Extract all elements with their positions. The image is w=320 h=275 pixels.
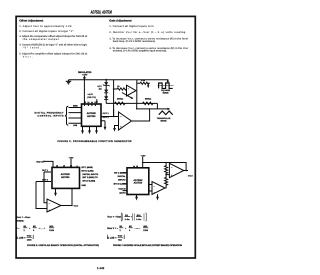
label: REGULATED +15V: [78, 71, 92, 76]
svg-text:+ . . . +: + . . . +: [39, 227, 46, 230]
wire: top rail: [69, 79, 169, 81]
svg-text:BIT 1 (MSB): BIT 1 (MSB): [82, 166, 94, 169]
svg-text:1024: 1024: [27, 239, 32, 242]
ground arrow at R2: [147, 83, 149, 86]
svg-text:2: 2: [120, 229, 122, 232]
label VREF: [36, 160, 44, 163]
svg-text:): ): [33, 236, 34, 239]
wire A4 output to resistor column: [165, 187, 166, 189]
label: TRIANGULAR WAVE: [157, 117, 171, 122]
ground arrow below OUT2: [101, 121, 105, 128]
svg-text:– ••• –: – ••• –: [135, 228, 141, 230]
svg-text:1-142: 1-142: [97, 267, 105, 270]
wire: OUT1 to A2: [101, 116, 119, 118]
svg-text:BIT 10 (LSB): BIT 10 (LSB): [82, 169, 94, 172]
svg-text:13: 13: [94, 101, 96, 104]
svg-text:Gain Adjustment: Gain Adjustment: [109, 18, 131, 22]
resistor R1 1k (comparator input): [117, 85, 120, 88]
svg-text:back loop. (0 ≤ R ≤ 500Ω resi: back loop. (0 ≤ R ≤ 500Ω resistance).: [113, 40, 156, 43]
wire: A2 inputs: [119, 109, 122, 115]
page border frame: [16, 16, 195, 258]
svg-text:1–210: 1–210: [125, 218, 130, 221]
svg-text:AD7530: AD7530: [61, 176, 70, 179]
resistor column: R5 upper: [165, 163, 168, 174]
label +15V: [69, 156, 75, 159]
U2 right side labels: [82, 166, 99, 187]
svg-text:AD7530: AD7530: [134, 182, 143, 185]
feedback wire from OUT1: [44, 172, 51, 203]
svg-text:–: –: [120, 115, 122, 118]
svg-text:VOUT: VOUT: [74, 205, 79, 208]
svg-text:VREF IN: VREF IN: [36, 160, 44, 163]
svg-text:): ): [124, 236, 125, 239]
svg-text:(±10V): (±10V): [120, 192, 126, 195]
diode D3: [104, 96, 108, 99]
zener diode D1: [105, 80, 107, 104]
pin numbers above U1: [84, 101, 97, 104]
svg-text:AD7520/: AD7520/: [61, 173, 70, 176]
svg-text:–: –: [128, 89, 130, 91]
svg-text:WAVE: WAVE: [163, 92, 170, 95]
svg-text:5. Adjust RFB amplifier offse: 5. Adjust RFB amplifier offset adjust tr…: [19, 53, 87, 56]
svg-text:VOUT = –VREF: VOUT = –VREF: [107, 216, 121, 219]
pin numbers above U3: [133, 165, 138, 168]
ground arrows below U1: [83, 126, 97, 131]
arrow into pin 15: [96, 99, 98, 102]
svg-text:+4.7V: +4.7V: [87, 93, 93, 96]
label: DIGITAL FREQUENCY CONTROL INPUTS: [35, 112, 65, 118]
square wave glyph: [159, 83, 173, 88]
wire VREF to chip: [45, 161, 54, 167]
svg-text:OUT 1: OUT 1: [103, 112, 110, 115]
op-amp A1 comparator: [127, 85, 137, 96]
ground (left end of top rail): [66, 80, 71, 84]
label VOUT: [74, 205, 79, 208]
svg-text:(A): (A): [99, 88, 102, 91]
wire A3 output: [61, 205, 72, 207]
input brace: [65, 106, 68, 125]
label: SQUARE WAVE: [161, 89, 171, 94]
triangle wave glyph: [159, 111, 173, 115]
junction node to A5 + input: [165, 174, 167, 176]
svg-text:200kΩ: 200kΩ: [117, 97, 124, 100]
wire +15V to chip: [70, 159, 72, 167]
svg-text:FIGURE 6. UNIPOLAR BINARY OPE: FIGURE 6. UNIPOLAR BINARY OPERATION (DIG…: [27, 244, 99, 247]
svg-text:14: 14: [70, 165, 72, 168]
svg-text:–: –: [49, 202, 51, 205]
supply arrow into top wire: [83, 76, 85, 80]
svg-text:+15V: +15V: [69, 156, 75, 159]
svg-text:BIT 10 (LSB)): BIT 10 (LSB)): [83, 180, 96, 183]
svg-text:VREF: VREF: [27, 235, 32, 238]
wire: drop from rail to DAC pin: [83, 80, 85, 104]
DAC U3 AD7520: [127, 168, 149, 195]
svg-text:+: +: [29, 227, 31, 230]
left column: Offset Adjustment text: [19, 18, 88, 58]
feedback from output to chip: [71, 188, 73, 205]
svg-text:AD7520, AD7530: AD7520, AD7530: [90, 9, 112, 14]
svg-text:OUT 1: OUT 1: [42, 169, 49, 172]
svg-text:15: 15: [84, 101, 86, 104]
svg-text:2. Connect all digital inputs: 2. Connect all digital inputs to logic “…: [19, 30, 74, 33]
label MSB: [73, 105, 78, 108]
svg-text:2. Monitor VOUT for a –VREF: 2. Monitor VOUT for a –VREF (1 – 2–10) v…: [109, 31, 186, 34]
svg-text:VREF IN: VREF IN: [118, 187, 126, 190]
summing rail wire: [106, 102, 157, 104]
ground arrow below A4: [157, 194, 159, 197]
svg-text:LSB: LSB: [73, 124, 78, 127]
svg-text:VREF: VREF: [118, 235, 123, 238]
potentiometer R3 200k: [117, 97, 124, 100]
resistor R6 lower: [165, 173, 168, 188]
resistor R2 1.0k (top right): [141, 79, 146, 82]
svg-text:FIGURE 7. MODIFIED SCALE BIPO: FIGURE 7. MODIFIED SCALE BIPOLAR (OFFSET…: [113, 244, 182, 247]
svg-text:AD7520/: AD7520/: [87, 112, 96, 115]
label: +4.7V zener note: [87, 93, 96, 99]
wire: A2 output: [132, 109, 150, 121]
svg-text:terminal. (0 ≤ R ≤ 500Ω ampli: terminal. (0 ≤ R ≤ 500Ω amplifier input …: [113, 50, 167, 53]
svg-text:(1 LSB =: (1 LSB =: [16, 236, 26, 239]
feedback wire top: [143, 163, 186, 171]
svg-text:1. Connect all digital inputs: 1. Connect all digital inputs to H.: [109, 25, 154, 28]
svg-text:14: 14: [91, 101, 93, 104]
svg-text:VOUT = –VDAC: VOUT = –VDAC: [16, 216, 31, 219]
U3 left pin stubs: [123, 173, 128, 191]
svg-text:WAVE: WAVE: [161, 120, 168, 123]
svg-text:DIGITAL INPUTS: DIGITAL INPUTS: [83, 173, 99, 176]
svg-text:“0” level.: “0” level.: [23, 47, 41, 50]
svg-text:–: –: [154, 185, 156, 188]
svg-text:VOUT.: VOUT.: [23, 55, 33, 58]
svg-text:GND: GND: [82, 184, 87, 187]
DAC U1 AD7520: [82, 104, 102, 126]
svg-text:the comparator output.: the comparator output.: [23, 38, 60, 41]
wire: rail right end down: [156, 103, 158, 109]
svg-text:4.7V: 4.7V: [97, 85, 102, 88]
equations figure 6: [16, 216, 55, 242]
op-amp A5: [169, 163, 183, 177]
svg-text:= –: = –: [16, 227, 20, 230]
svg-text:16: 16: [87, 101, 89, 104]
DAC U2 AD7520: [52, 167, 80, 188]
wire: node up to summing rail: [113, 109, 115, 117]
feedback wire from OUT2: [36, 182, 51, 209]
svg-text:16: 16: [63, 165, 65, 168]
svg-text:4: 4: [129, 229, 131, 232]
svg-text:DIGITAL: DIGITAL: [118, 175, 127, 178]
ground arrow below U3: [136, 195, 138, 198]
svg-text:+: +: [125, 227, 127, 230]
svg-text:1–210: 1–210: [136, 218, 141, 221]
svg-text:500kΩ: 500kΩ: [145, 97, 152, 100]
ground arrow below U2: [55, 188, 57, 193]
svg-text:thus V = –: thus V = –: [107, 227, 119, 230]
svg-text:1. Adjust VREF to approximate: 1. Adjust VREF to approximately 1.0V.: [19, 25, 72, 28]
wire: rail down to A2 input: [136, 103, 138, 109]
svg-text:15: 15: [56, 165, 58, 168]
svg-text:+15V: +15V: [141, 154, 147, 157]
resistor R4: [145, 97, 152, 100]
right column: Gain Adjustment text: [109, 18, 189, 52]
svg-text:+15V: +15V: [82, 74, 88, 77]
diode D2: [104, 90, 108, 93]
svg-text:WHERE:: WHERE:: [16, 219, 24, 222]
ground at A2 + input: [115, 126, 119, 129]
labels OUT1 OUT2: [103, 112, 110, 119]
svg-text:–: –: [171, 167, 173, 170]
op-amp A4: [152, 182, 165, 195]
wires U3 to A4 inputs: [149, 185, 152, 192]
svg-text:CONTROL INPUTS: CONTROL INPUTS: [38, 114, 65, 117]
svg-text:FIGURE 5. PROGRAMMABLE FUNCTI: FIGURE 5. PROGRAMMABLE FUNCTION GENERATO…: [58, 140, 132, 143]
svg-text:512: 512: [118, 239, 122, 242]
wire: A1 output node vertical: [136, 80, 138, 104]
svg-text:4: 4: [77, 165, 78, 168]
digital input stubs: [69, 108, 82, 124]
svg-text:DIGITAL FREQUENCY: DIGITAL FREQUENCY: [35, 112, 65, 115]
svg-text:(1 LSB =: (1 LSB =: [107, 236, 117, 239]
svg-text:2: 2: [24, 229, 26, 232]
label +15V: [141, 154, 147, 157]
svg-text:Offset Adjustment: Offset Adjustment: [19, 18, 43, 22]
svg-text:4: 4: [33, 229, 35, 232]
svg-text:INPUTS: INPUTS: [118, 179, 126, 182]
svg-text:1024: 1024: [143, 229, 148, 232]
svg-text:14 15: 14 15: [133, 165, 138, 168]
wire: input bus vertical: [113, 80, 115, 117]
label: 4.7V diode value: [97, 85, 102, 91]
op-amp A2 integrator: [119, 112, 132, 130]
equations figure 7: [107, 213, 149, 242]
svg-text:AD7530: AD7530: [87, 115, 96, 118]
pin ticks top of U1: [84, 104, 95, 106]
svg-text:1024: 1024: [49, 229, 54, 232]
svg-text:(BIT 1 (MSB) TO: (BIT 1 (MSB) TO: [83, 176, 99, 179]
wire +15V down to chip: [142, 157, 144, 168]
label VOUT: [188, 175, 193, 178]
U3 left labels: [114, 171, 127, 194]
U2 left pin labels OUT1 OUT2: [42, 169, 49, 182]
pot wiper arrow: [122, 93, 132, 99]
op-amp A3: [47, 199, 61, 212]
square wave output arrow: [167, 80, 168, 81]
svg-text:(750 TO): (750 TO): [87, 96, 96, 99]
svg-text:VOUT: VOUT: [188, 175, 193, 178]
svg-text:AD7520/: AD7520/: [133, 179, 142, 182]
pin numbers above U2: [56, 165, 78, 168]
wire A5 output: [184, 170, 188, 172]
label LSB: [73, 124, 78, 127]
